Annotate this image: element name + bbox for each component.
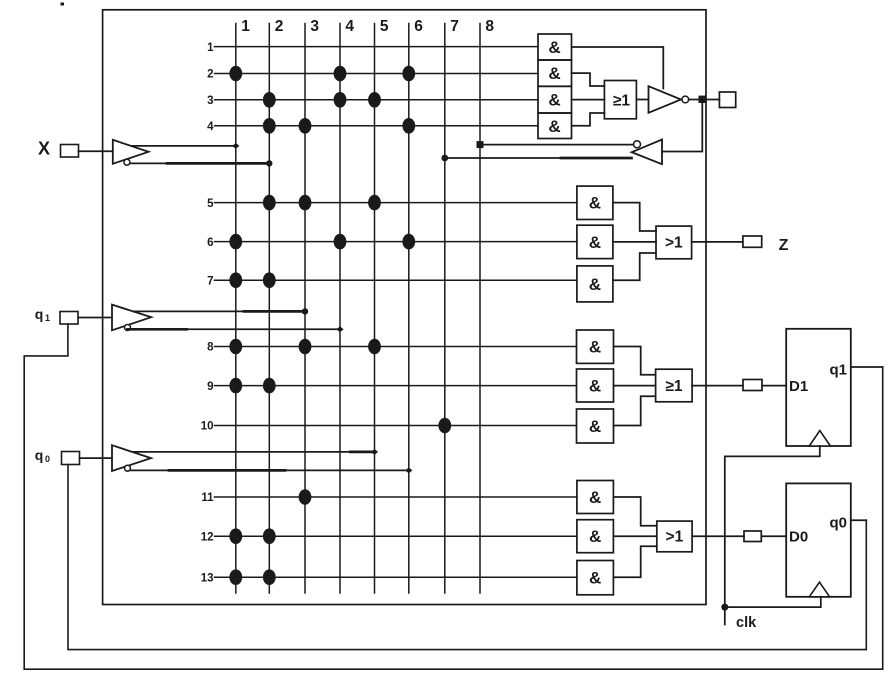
svg-text:13: 13: [201, 572, 214, 584]
junction q1 true on column 3: [302, 308, 308, 314]
svg-text:2: 2: [207, 69, 213, 81]
wire q0 pin to buffer: [80, 457, 113, 459]
input label q0: [35, 447, 50, 464]
wire q1 complement output: [128, 328, 341, 330]
junction dot row3-col2: [263, 92, 276, 108]
svg-text:7: 7: [207, 275, 213, 287]
wire U6 true to column 7: [445, 157, 632, 159]
svg-text:q: q: [35, 447, 44, 463]
svg-text:12: 12: [201, 531, 214, 543]
wire OR2 to Z pin: [692, 241, 743, 243]
AND gate &9 (row 9): [577, 369, 614, 402]
AND gate &10 (row 10): [577, 409, 614, 443]
column 5 wire: [375, 18, 389, 593]
svg-text:1: 1: [45, 313, 50, 323]
wire OR3 to D1 pin: [692, 385, 743, 387]
row 10 wire: [201, 421, 577, 433]
row 7 wire: [207, 275, 577, 287]
column 8 wire: [480, 18, 494, 593]
svg-text:&: &: [589, 275, 601, 294]
junction feedback on column 8: [477, 141, 484, 148]
svg-text:3: 3: [207, 95, 213, 107]
junction dot row12-col2: [263, 528, 276, 544]
wire output node down to U6: [662, 103, 702, 152]
row 13 wire: [201, 572, 577, 584]
svg-text:≥1: ≥1: [613, 92, 631, 109]
wire OR4 to D0 pin: [692, 535, 744, 537]
svg-text:8: 8: [485, 18, 494, 35]
column 2 wire: [269, 18, 283, 593]
input label X: [38, 139, 50, 159]
svg-text:D1: D1: [789, 378, 808, 395]
column 4 wire: [340, 18, 354, 593]
wire q0 feedback loop: [68, 465, 866, 650]
wire clk to FF0 clock: [725, 597, 821, 607]
wire AND4 to OR1: [572, 113, 605, 126]
wire X true output: [132, 145, 236, 147]
input pin X: [61, 145, 79, 158]
AND gate &3 (row 3): [538, 86, 572, 113]
inverter U5 (output): [649, 86, 689, 113]
wire D0 pin to FF0: [761, 535, 786, 537]
junction dot row5-col5: [368, 195, 381, 211]
svg-text:10: 10: [201, 421, 214, 433]
junction q0 true on column 5: [371, 449, 378, 455]
AND gate &7 (row 7): [577, 266, 613, 302]
output node: [699, 96, 706, 103]
junction q0 complement on column 6: [405, 467, 412, 473]
AND gate &12 (row 12): [577, 520, 614, 553]
svg-text:1: 1: [241, 18, 250, 35]
flip-flop FF0 (D0/q0): [786, 483, 851, 596]
OR gate OR4: [657, 521, 692, 552]
svg-text:&: &: [548, 117, 560, 136]
svg-text:X: X: [38, 139, 50, 159]
svg-text:>1: >1: [665, 235, 683, 252]
pin box D1: [743, 380, 762, 391]
svg-text:Z: Z: [779, 237, 789, 254]
junction dot row9-col1: [229, 378, 242, 394]
output label Z: [779, 237, 789, 254]
svg-text:4: 4: [345, 18, 354, 35]
input pin q0: [62, 452, 80, 465]
AND gate &6 (row 6): [577, 225, 613, 258]
wire AND8 to OR3: [614, 347, 656, 375]
junction dot row7-col2: [263, 272, 276, 288]
wire q1 pin to buffer: [78, 317, 112, 319]
junction dot row11-col3: [299, 489, 312, 505]
output pin Z: [743, 236, 762, 247]
AND gate &5 (row 5): [577, 186, 613, 219]
svg-text:>1: >1: [666, 529, 684, 546]
junction dot row8-col3: [299, 339, 312, 355]
svg-text:2: 2: [275, 18, 284, 35]
AND gate &11 (row 11): [577, 481, 614, 514]
wire AND13 to OR4: [613, 546, 656, 577]
junction dot row3-col4: [334, 92, 347, 108]
row 8 wire: [207, 342, 576, 354]
svg-text:&: &: [589, 338, 601, 357]
row 5 wire: [207, 198, 577, 210]
svg-text:0: 0: [45, 454, 50, 464]
junction dot row8-col5: [368, 339, 381, 355]
OR gate OR1: [604, 81, 636, 119]
svg-text:q: q: [35, 306, 44, 322]
AND gate &13 (row 13): [577, 561, 614, 595]
junction dot row5-col3: [299, 195, 312, 211]
junction dot row9-col2: [263, 378, 276, 394]
column 1 wire: [236, 18, 250, 593]
junction q1 complement on column 4: [336, 326, 343, 332]
svg-text:q1: q1: [830, 362, 848, 379]
wire AND2 to OR1: [572, 73, 605, 86]
row 4 wire: [207, 121, 538, 133]
wire q0 true output: [134, 451, 375, 453]
buffer U1 (input X): [113, 140, 149, 165]
wire q1 feedback loop: [24, 324, 883, 669]
svg-text:5: 5: [380, 18, 389, 35]
wire U6 complement to column 8: [480, 144, 633, 146]
PLA array box: [103, 10, 706, 605]
pin box D0: [744, 531, 761, 542]
svg-text:&: &: [548, 38, 560, 57]
svg-text:&: &: [589, 417, 601, 436]
junction dot row6-col1: [229, 234, 242, 250]
junction dot row4-col2: [263, 118, 276, 134]
svg-text:6: 6: [207, 237, 213, 249]
wire X complement output: [130, 162, 269, 164]
junction dot row6-col6: [402, 234, 415, 250]
buffer U3 (input q0): [112, 445, 151, 471]
svg-text:7: 7: [450, 18, 459, 35]
AND gate &4 (row 4): [538, 113, 572, 139]
wire AND11 to OR4: [613, 497, 656, 526]
svg-text:clk: clk: [736, 615, 757, 631]
wire FF1 q1 output: [851, 366, 883, 368]
junction dot row7-col1: [229, 272, 242, 288]
wire q1 true output: [133, 310, 305, 312]
junction clk node: [721, 604, 728, 611]
svg-text:6: 6: [414, 18, 423, 35]
wire U5 to output node: [689, 99, 699, 101]
row 12 wire: [201, 531, 577, 543]
junction feedback on column 7: [441, 155, 448, 162]
row 3 wire: [207, 95, 538, 107]
svg-text:9: 9: [207, 381, 213, 393]
svg-text:≥1: ≥1: [665, 378, 683, 395]
junction dot row8-col1: [229, 339, 242, 355]
svg-text:&: &: [589, 527, 601, 546]
junction dot row2-col6: [402, 66, 415, 82]
row 1 wire: [207, 42, 538, 54]
OR gate OR3: [656, 369, 693, 402]
junction dot row2-col1: [229, 66, 242, 82]
wire OR1 to inverter U5: [636, 99, 648, 101]
row 6 wire: [207, 237, 577, 249]
buffer U2 (input q1): [112, 305, 151, 331]
junction dot row3-col5: [368, 92, 381, 108]
output pin box: [706, 92, 736, 108]
svg-text:&: &: [589, 377, 601, 396]
AND gate &1 (row 1): [538, 34, 572, 60]
svg-text:3: 3: [310, 18, 319, 35]
wire q0 complement output: [131, 469, 409, 471]
wire AND5 to OR2: [613, 203, 656, 231]
wire FF0 q0 output: [851, 519, 867, 521]
input pin q1: [60, 312, 78, 325]
junction dot row10-col7: [438, 418, 451, 434]
junction dot row4-col3: [299, 118, 312, 134]
svg-text:&: &: [548, 64, 560, 83]
wire AND6 to OR2: [613, 241, 656, 243]
column 6 wire: [409, 18, 423, 593]
flip-flop FF1 (D1/q1): [786, 329, 851, 446]
row 11 wire: [201, 492, 577, 504]
column 3 wire: [305, 18, 319, 593]
svg-text:&: &: [589, 488, 601, 507]
junction dot row4-col6: [402, 118, 415, 134]
svg-text:&: &: [589, 194, 601, 213]
column 7 wire: [445, 18, 459, 593]
svg-text:D0: D0: [789, 529, 808, 546]
wire AND1 to inverter U5: [572, 47, 664, 89]
wire AND3 to OR1: [572, 99, 605, 101]
wire AND9 to OR3: [614, 385, 656, 387]
AND gate &2 (row 2): [538, 60, 572, 86]
wire AND7 to OR2: [613, 253, 656, 280]
junction dot row6-col4: [334, 234, 347, 250]
wire D1 pin to FF1: [762, 385, 786, 387]
svg-text:11: 11: [201, 492, 214, 504]
OR gate OR2: [656, 226, 692, 259]
clk input stub: [724, 607, 726, 624]
input label q1: [35, 306, 50, 323]
svg-text:&: &: [548, 91, 560, 110]
svg-text:&: &: [589, 233, 601, 252]
junction dot row5-col2: [263, 195, 276, 211]
junction X true on column 1: [232, 143, 239, 149]
svg-text:&: &: [589, 569, 601, 588]
wire AND10 to OR3: [614, 396, 656, 425]
junction X complement on column 2: [266, 160, 272, 166]
junction dot row13-col2: [263, 569, 276, 585]
junction dot row12-col1: [229, 528, 242, 544]
row 9 wire: [207, 381, 576, 393]
svg-text:5: 5: [207, 198, 214, 210]
AND gate &8 (row 8): [577, 330, 614, 363]
inverter U6 (feedback): [632, 140, 662, 165]
svg-text:8: 8: [207, 342, 214, 354]
svg-text:4: 4: [207, 121, 214, 133]
junction dot row13-col1: [229, 569, 242, 585]
wire FF1 clock: [725, 446, 820, 607]
row 2 wire: [207, 69, 538, 81]
wire AND12 to OR4: [613, 535, 656, 537]
svg-text:q0: q0: [830, 515, 848, 532]
wire X pin to buffer: [79, 150, 113, 152]
junction dot row2-col4: [334, 66, 347, 82]
svg-text:1: 1: [207, 42, 214, 54]
clock label clk: [736, 615, 757, 631]
